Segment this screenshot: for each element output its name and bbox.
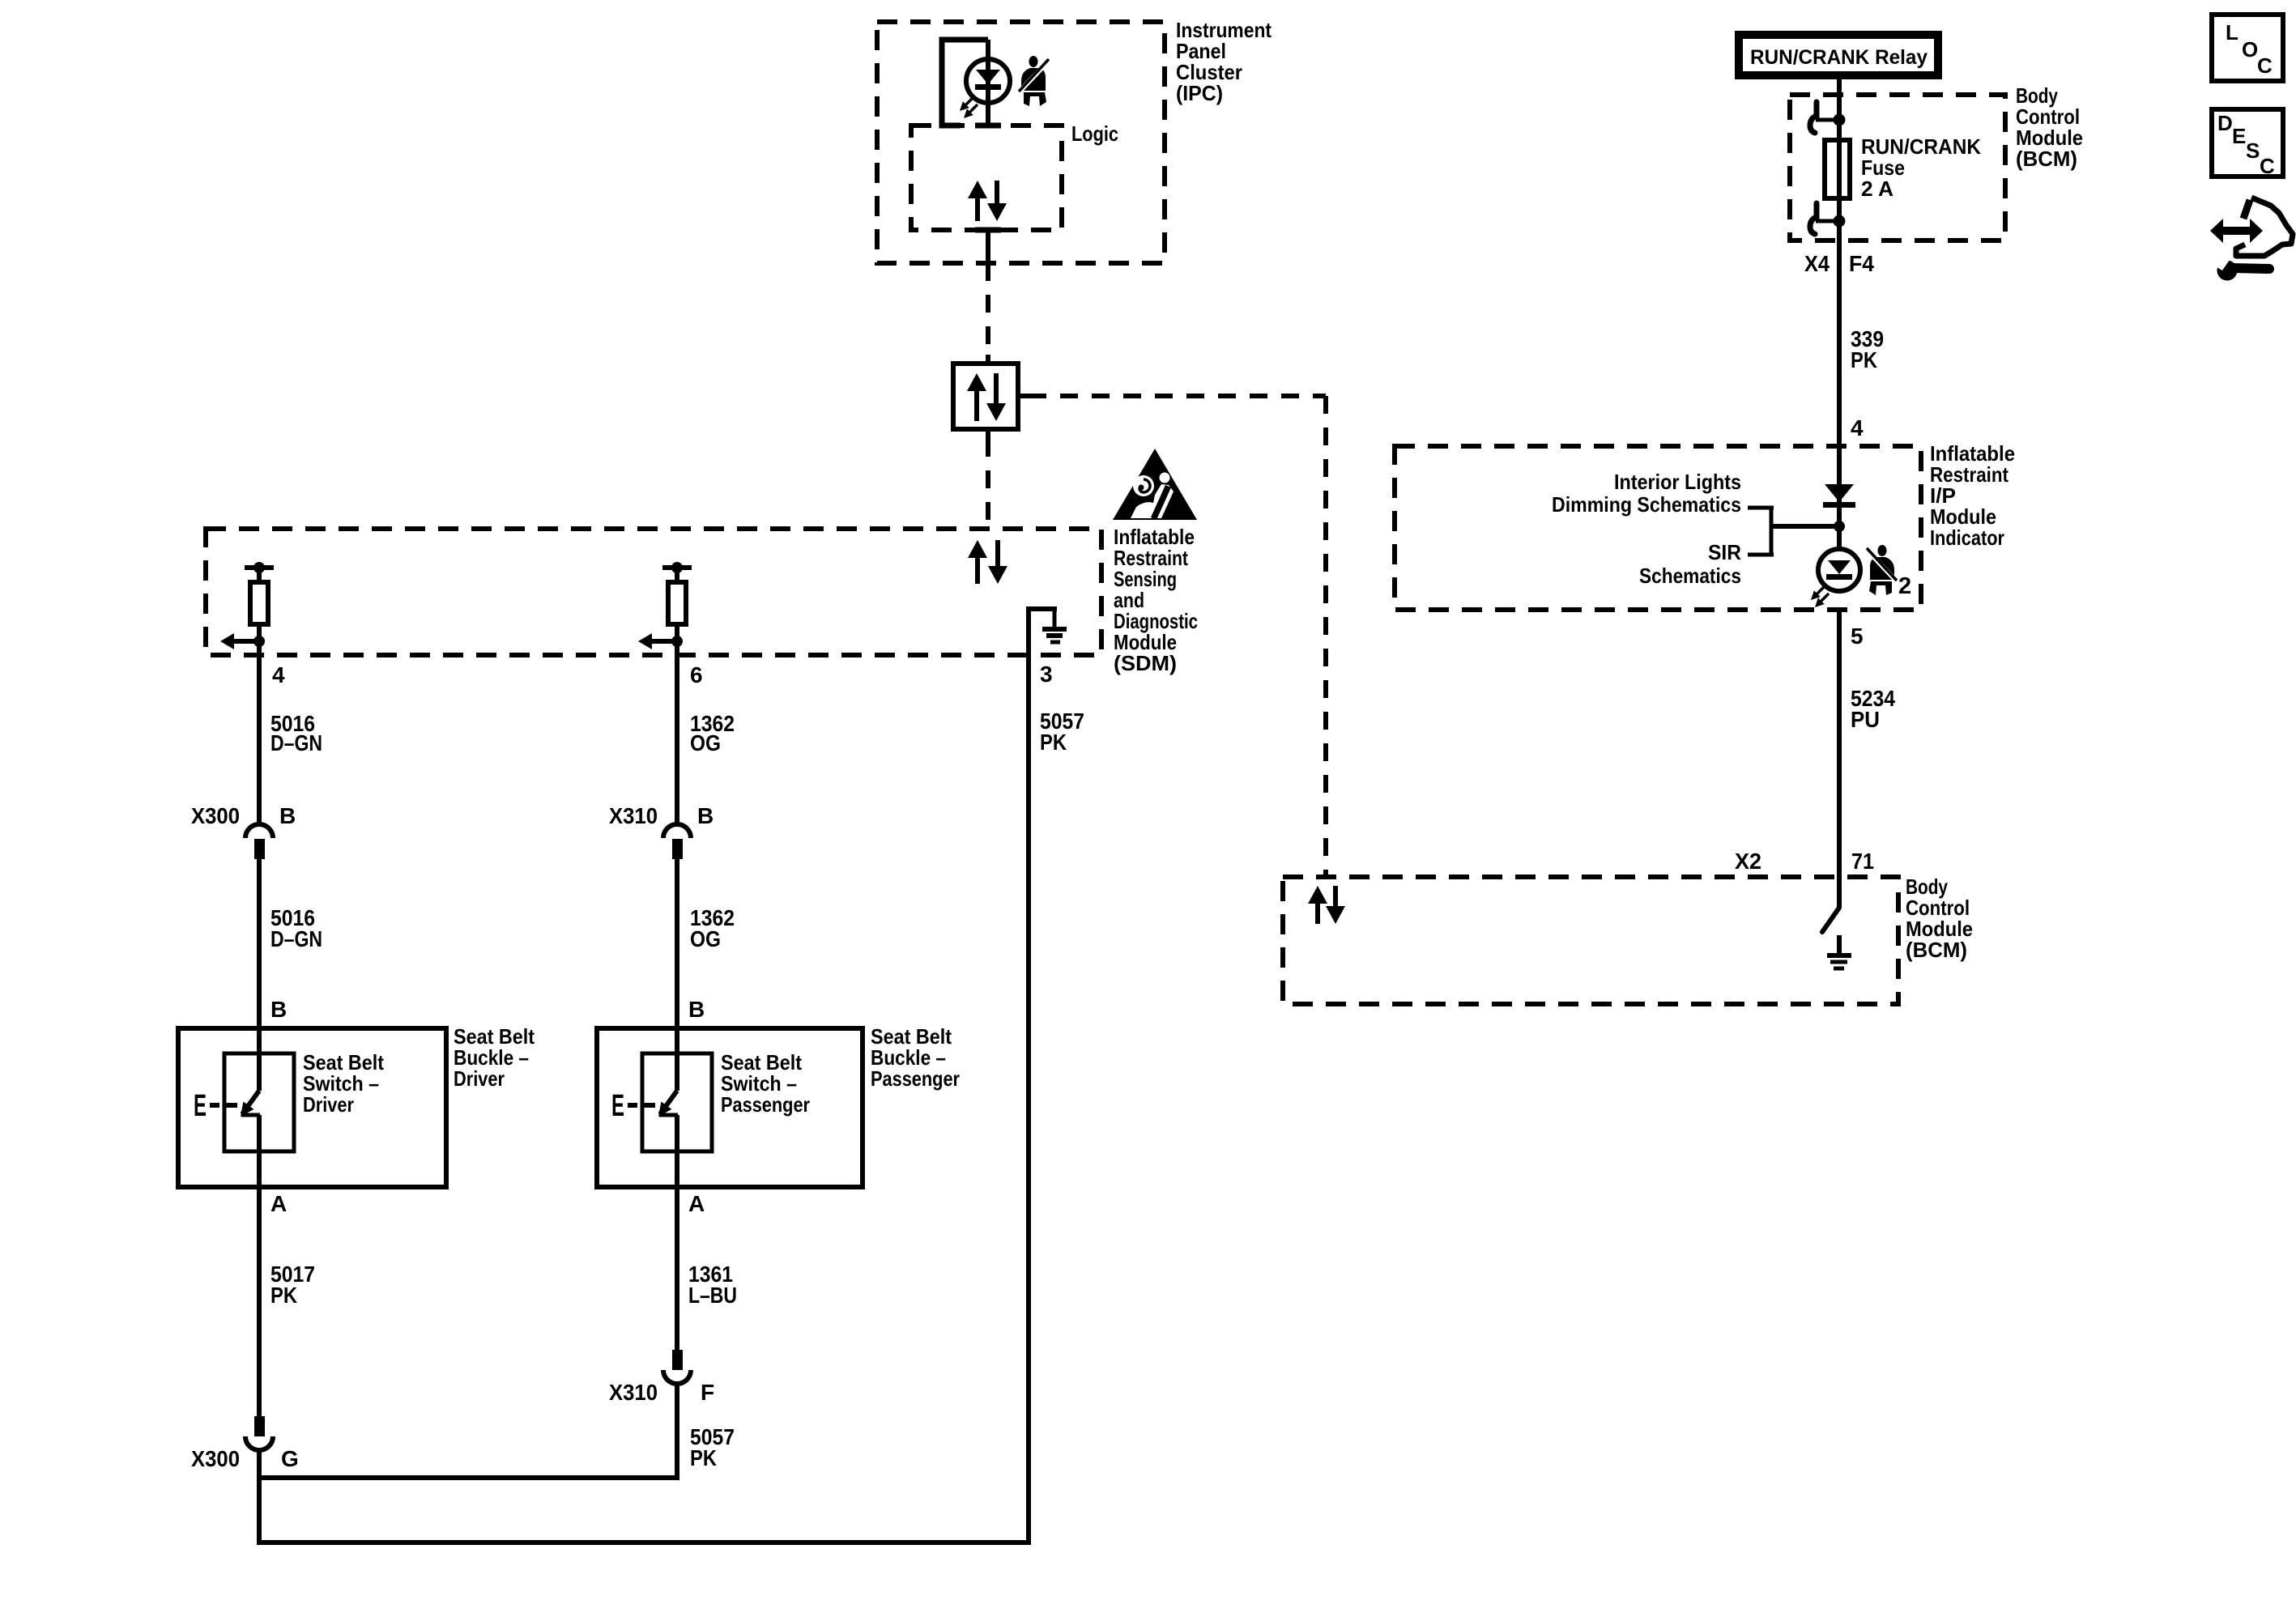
svg-text:Schematics: Schematics [1639, 564, 1741, 588]
svg-text:(BCM): (BCM) [1906, 938, 1967, 962]
serial data arrows in BCM [1308, 886, 1345, 924]
seat belt buckle driver box [178, 1028, 446, 1187]
LED light emission arrows (I/P) [1811, 586, 1829, 607]
airbag warning triangle [1113, 449, 1197, 520]
svg-text:X4: X4 [1804, 251, 1830, 276]
serial data arrows in logic box [968, 181, 1007, 221]
node dot [671, 562, 683, 573]
svg-text:X300: X300 [191, 1446, 240, 1471]
serial data box [953, 364, 1018, 429]
node T-bar at logic box top [975, 123, 1001, 129]
svg-text:3: 3 [1040, 662, 1053, 687]
connector X300 pin G [245, 1416, 273, 1450]
seat belt buckle passenger box [597, 1028, 863, 1187]
LED light emission arrows [960, 97, 978, 118]
label: Inflatable Restraint Sensing and Diagnostic Module (SDM) [1114, 525, 1198, 675]
svg-text:D–GN: D–GN [270, 730, 322, 755]
svg-text:E: E [2232, 124, 2246, 148]
wrench icon [2213, 255, 2269, 281]
dashed wire serial box to SDM [986, 439, 990, 529]
node dot [253, 636, 265, 647]
fuse RUN/CRANK 2A [1825, 140, 1850, 198]
svg-text:PK: PK [270, 1283, 297, 1308]
switch to ground in BCM [1822, 908, 1839, 932]
LED indicator (seat belt lamp) [966, 59, 1010, 103]
ground (SDM pin 3) [1042, 609, 1067, 642]
svg-text:OG: OG [690, 926, 721, 951]
dashed wire serial box to BCM (horizontal) [1029, 394, 1326, 398]
svg-text:E: E [194, 1089, 207, 1123]
svg-text:RUN/CRANK Relay: RUN/CRANK Relay [1750, 46, 1928, 69]
wire from logic box to IPC edge [986, 230, 990, 263]
inflatable restraint I/P module indicator dashed box [1395, 446, 1921, 610]
diode on indicator feed [1823, 484, 1855, 508]
wire through fuse [1837, 120, 1842, 221]
data link connector icon [2210, 198, 2293, 256]
svg-text:(IPC): (IPC) [1176, 81, 1223, 105]
DESC reference box [2212, 109, 2283, 178]
wire label 5016 D-GN (lower) [270, 905, 322, 951]
connector X310 pin B [663, 824, 691, 859]
node dot [1834, 114, 1846, 126]
SDM internal ground wire [1029, 609, 1057, 655]
svg-text:X300: X300 [191, 803, 240, 828]
svg-text:C: C [2257, 53, 2273, 78]
wire 5234 PU [1837, 610, 1842, 908]
node dot [253, 562, 265, 573]
svg-text:OG: OG [690, 730, 721, 755]
dashed wire IPC to serial data box [986, 263, 990, 356]
svg-text:6: 6 [690, 662, 703, 687]
label: Inflatable Restraint I/P Module Indicator [1930, 441, 2015, 550]
seat belt icon (IPC) [1019, 56, 1049, 106]
connector X310 pin F [663, 1350, 691, 1384]
wire 5016 D-GN (SDM to X300) [257, 655, 262, 824]
connector X300 pin B [245, 824, 273, 859]
SDM dashed box [206, 529, 1101, 655]
svg-text:Driver: Driver [303, 1092, 354, 1117]
wire label 5057 PK (SDM) [1040, 709, 1084, 755]
label E with dashes (driver) [194, 1089, 237, 1123]
body control module dashed box (top) [1790, 95, 2005, 240]
svg-text:PK: PK [690, 1445, 717, 1470]
label: Seat Belt Switch - Driver [303, 1050, 384, 1117]
svg-text:PK: PK [1040, 730, 1067, 755]
svg-text:B: B [688, 997, 705, 1022]
logic dashed box [911, 126, 1062, 230]
wire 1361 L-BU (switch to X310 F) [675, 1187, 679, 1350]
wire junction driver-passenger [257, 1475, 679, 1480]
svg-text:X2: X2 [1735, 849, 1761, 874]
LED loop wire [942, 40, 988, 126]
wire (X310 F down to junction) [675, 1384, 679, 1478]
svg-text:O: O [2242, 37, 2258, 62]
svg-text:L: L [2226, 20, 2238, 45]
svg-text:2: 2 [1898, 573, 1911, 599]
node dot (indicator junction) [1834, 521, 1845, 532]
label E with dashes (passenger) [611, 1089, 655, 1123]
wire label 1361 L-BU [688, 1262, 737, 1308]
wire stub [986, 355, 990, 364]
svg-text:A: A [688, 1191, 705, 1216]
label: Body Control Module (BCM) bottom [1906, 874, 1973, 962]
body control module dashed box (bottom) [1283, 877, 1898, 1004]
wire stub right of serial box [1018, 394, 1029, 398]
svg-text:X310: X310 [609, 803, 658, 828]
svg-text:B: B [279, 803, 296, 828]
terminal clip (lower) [1810, 203, 1835, 234]
svg-text:Passenger: Passenger [871, 1066, 960, 1091]
seat belt switch passenger (switch symbol) [642, 1028, 712, 1187]
svg-text:(SDM): (SDM) [1114, 651, 1177, 675]
svg-text:Passenger: Passenger [721, 1092, 810, 1117]
wire label 1362 OG (upper) [690, 711, 735, 755]
wire [257, 568, 262, 582]
ground (BCM) [1827, 935, 1851, 968]
wire 5017 PK (switch to X300 G) [257, 1187, 262, 1416]
node bar (driver resistor top) [245, 565, 274, 570]
svg-text:SIR: SIR [1708, 540, 1741, 564]
svg-text:A: A [270, 1191, 287, 1216]
node dot [671, 636, 683, 647]
svg-text:PK: PK [1851, 347, 1877, 372]
node dot [1834, 215, 1846, 228]
wire label 5016 D-GN (upper) [270, 711, 322, 755]
instrument panel cluster (IPC) dashed box [877, 22, 1165, 263]
label: Seat Belt Buckle - Driver [454, 1024, 535, 1091]
svg-text:(BCM): (BCM) [2016, 147, 2077, 171]
wire label 339 PK [1851, 326, 1884, 372]
serial data arrows in SDM [968, 540, 1007, 584]
svg-text:B: B [697, 803, 714, 828]
node T-bar at logic box bottom [975, 228, 1001, 233]
serial data arrows [967, 373, 1006, 421]
seat belt icon (indicator, mirrored) [1867, 545, 1897, 595]
label: Instrument Panel Cluster (IPC) [1176, 18, 1272, 105]
wire label 5234 PU [1851, 686, 1895, 732]
wire 1362 OG (SDM to X310) [675, 655, 679, 824]
bracket to schematics references [1748, 506, 1839, 556]
resistor (passenger seat belt sense) [668, 582, 686, 624]
seat belt switch driver (switch symbol) [224, 1028, 294, 1187]
label: RUN/CRANK Fuse 2 A [1861, 134, 1981, 201]
svg-text:4: 4 [272, 662, 285, 687]
svg-text:Interior Lights: Interior Lights [1614, 470, 1741, 494]
node bar (passenger resistor top) [662, 565, 692, 570]
wire label 1362 OG (lower) [690, 905, 735, 951]
svg-text:D: D [2217, 111, 2233, 135]
terminal clip (upper) [1810, 102, 1835, 133]
LED indicator lamp (I/P) [1818, 549, 1860, 591]
RUN/CRANK Relay title box [1735, 31, 1942, 79]
wire stub below serial box [986, 429, 990, 439]
svg-text:Dimming Schematics: Dimming Schematics [1552, 492, 1741, 517]
svg-text:F4: F4 [1849, 251, 1874, 276]
wire label 5017 PK [270, 1262, 315, 1308]
label: SIR Schematics [1639, 540, 1741, 588]
wire [675, 624, 679, 655]
svg-text:5: 5 [1851, 623, 1864, 649]
wire [257, 624, 262, 655]
wire [675, 568, 679, 582]
wire (BCM to indicator box) [1837, 221, 1842, 551]
svg-text:C: C [2260, 154, 2275, 178]
svg-text:X310: X310 [609, 1380, 658, 1405]
label: Body Control Module (BCM) top [2016, 83, 2083, 171]
arrow to SDM internal (passenger) [638, 633, 677, 649]
svg-text:71: 71 [1851, 849, 1874, 874]
svg-text:Logic: Logic [1071, 121, 1118, 146]
wire 5057 PK riser to SDM [1026, 655, 1031, 1545]
svg-text:F: F [701, 1380, 714, 1405]
wire bottom bus [257, 1540, 1031, 1545]
svg-text:Indicator: Indicator [1930, 526, 2004, 550]
label: Seat Belt Switch - Passenger [721, 1050, 810, 1117]
svg-text:PU: PU [1851, 707, 1880, 732]
dashed wire down to BCM [1323, 396, 1328, 877]
svg-text:Driver: Driver [454, 1066, 505, 1091]
svg-text:E: E [611, 1089, 624, 1123]
label: Seat Belt Buckle - Passenger [871, 1024, 960, 1091]
svg-text:4: 4 [1851, 415, 1864, 440]
svg-text:D–GN: D–GN [270, 926, 322, 951]
svg-text:L–BU: L–BU [688, 1283, 737, 1308]
LOC reference box [2212, 15, 2283, 81]
wire (relay to BCM) [1837, 79, 1842, 121]
resistor (driver seat belt sense) [250, 582, 268, 624]
wire (X310 to passenger switch) [675, 859, 679, 1028]
label: Interior Lights Dimming Schematics [1552, 470, 1741, 517]
svg-text:B: B [270, 997, 287, 1022]
wire (X300 to driver switch) [257, 859, 262, 1028]
wire label 5057 PK (lower) [690, 1424, 735, 1470]
wire (LED anode vertical) [986, 40, 990, 128]
svg-text:G: G [281, 1446, 299, 1471]
arrow to SDM internal (driver) [220, 633, 259, 649]
wire (X300 G down) [257, 1450, 262, 1545]
svg-text:S: S [2246, 138, 2260, 163]
svg-text:2 A: 2 A [1861, 177, 1893, 201]
